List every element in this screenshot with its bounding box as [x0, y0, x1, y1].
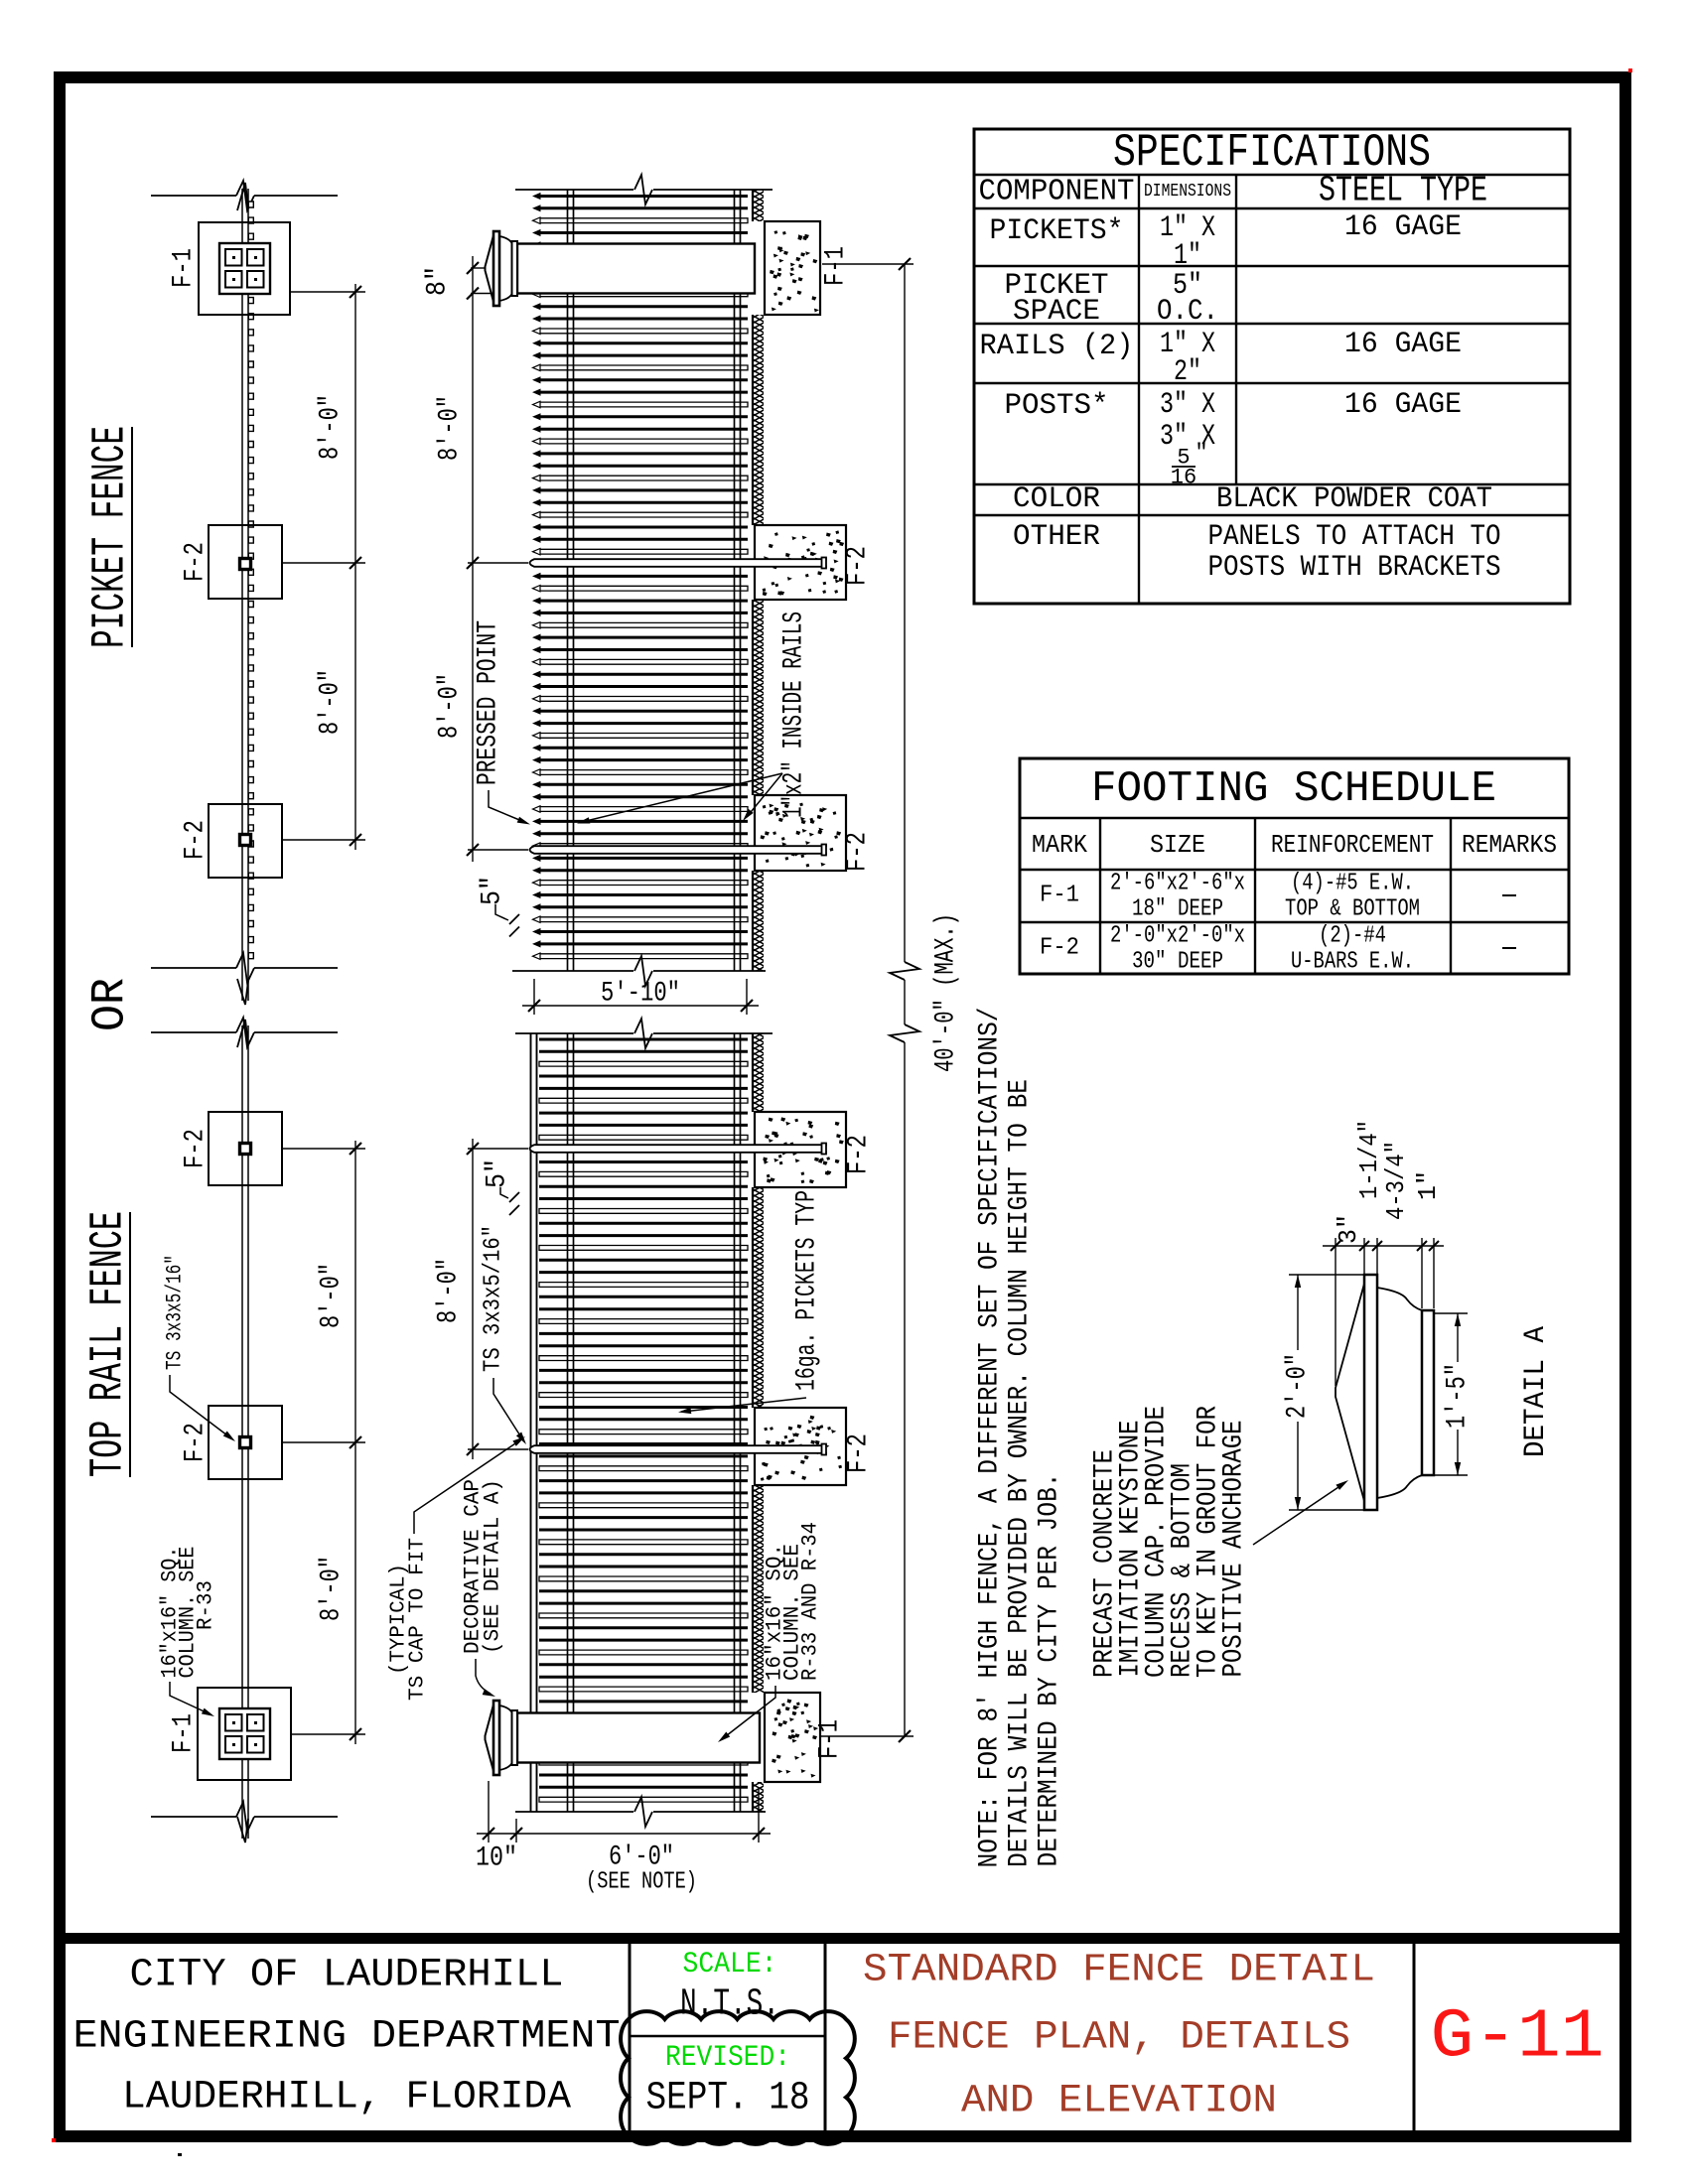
elev2 TS label leader: [493, 1378, 523, 1440]
svg-text:N.T.S.: N.T.S.: [680, 1983, 779, 2026]
footing schedule row lines: [1020, 817, 1569, 819]
svg-text:": ": [1195, 441, 1207, 466]
svg-text:TS 3x3x5/16": TS 3x3x5/16": [163, 1255, 188, 1370]
svg-text:5'-10": 5'-10": [601, 979, 680, 1010]
plan1 break arrow bottom: [237, 979, 248, 1005]
svg-text:16 GAGE: 16 GAGE: [1344, 210, 1462, 244]
plan1 TS post symbol lower: [240, 835, 251, 846]
svg-text:COMPONENT: COMPONENT: [979, 175, 1135, 209]
plan2 top rail line: [241, 1025, 243, 1839]
plan2 dimension extension lines: [282, 1148, 365, 1150]
plan1 F-2 footing box upper: [209, 525, 282, 599]
elev2 top match line: [515, 1032, 633, 1034]
svg-text:REMARKS: REMARKS: [1462, 830, 1557, 860]
svg-text:8'-0": 8'-0": [317, 1263, 348, 1328]
svg-text:8'-0": 8'-0": [435, 673, 466, 739]
detail A cap plate: [1364, 1275, 1377, 1510]
elev2 ts cap leader: [414, 1439, 521, 1534]
plan2 F-1 footing box: [198, 1688, 291, 1780]
plan2 break arrow top: [237, 1020, 248, 1047]
elev1 F-2 footing lower: [755, 795, 846, 871]
svg-text:F-2: F-2: [181, 820, 211, 860]
plan2 column note leader: [170, 1682, 211, 1714]
elev1 dim 8in extension lines: [471, 267, 485, 269]
svg-text:STEEL TYPE: STEEL TYPE: [1319, 171, 1487, 211]
plan1 picket marks: [248, 202, 253, 959]
svg-text:F-1: F-1: [815, 1719, 846, 1759]
elev1 inside rail lower: [734, 190, 736, 971]
overall dim extension line top: [822, 263, 914, 265]
elev2 pickets: [539, 1039, 748, 1787]
svg-text:5": 5": [483, 1159, 513, 1188]
title block divider city|scale: [629, 1944, 632, 2131]
svg-text:40'-0" (MAX.): 40'-0" (MAX.): [931, 913, 962, 1072]
svg-text:F-2: F-2: [843, 832, 874, 872]
svg-text:STANDARD FENCE DETAIL: STANDARD FENCE DETAIL: [863, 1949, 1375, 1993]
elev1 ground hatch: [754, 190, 764, 221]
svg-text:DIMENSIONS: DIMENSIONS: [1144, 182, 1231, 202]
svg-text:TOP & BOTTOM: TOP & BOTTOM: [1285, 896, 1420, 923]
svg-text:ENGINEERING DEPARTMENT: ENGINEERING DEPARTMENT: [73, 2015, 621, 2060]
plan2 break arrow bottom: [237, 1817, 248, 1843]
detail A dim 1-5: [1457, 1313, 1459, 1362]
svg-text:F-2: F-2: [181, 542, 211, 582]
svg-text:SEPT. 18: SEPT. 18: [646, 2077, 810, 2121]
elev1 inside rail upper: [567, 190, 569, 971]
svg-text:TOP RAIL FENCE: TOP RAIL FENCE: [83, 1211, 136, 1477]
svg-text:1-1/4": 1-1/4": [1354, 1120, 1384, 1199]
title block divider scale|title: [824, 1944, 827, 2131]
plan1 16x16 column symbol: [219, 243, 270, 294]
red plot mark bottom-left: [52, 2138, 56, 2142]
elev1 grade line: [752, 190, 754, 221]
elev2 picket space leader and ticks: [500, 1187, 508, 1198]
svg-text:3" X: 3" X: [1160, 388, 1215, 422]
specifications table row lines: [974, 174, 1570, 176]
svg-text:SIZE: SIZE: [1150, 830, 1205, 860]
svg-text:PICKETS*: PICKETS*: [990, 214, 1124, 248]
top rail fence plan title underline: [129, 1212, 131, 1477]
elev2 bottom dim line: [477, 1833, 771, 1835]
svg-text:REVISED:: REVISED:: [665, 2041, 790, 2075]
svg-text:16 GAGE: 16 GAGE: [1344, 328, 1462, 361]
svg-text:MARK: MARK: [1032, 830, 1087, 860]
elev2 ground hatch: [754, 1033, 764, 1112]
plan2 TS post symbol lower: [240, 1437, 251, 1448]
overall dim extension line bottom: [821, 1735, 914, 1737]
elev2 TS post upper: [530, 1145, 828, 1153]
svg-text:DETERMINED BY CITY PER JOB.: DETERMINED BY CITY PER JOB.: [1035, 1473, 1065, 1867]
svg-text:18" DEEP: 18" DEEP: [1132, 896, 1223, 923]
elev1 TS post upper: [530, 559, 828, 567]
svg-text:POSTS WITH BRACKETS: POSTS WITH BRACKETS: [1208, 551, 1501, 585]
svg-text:16: 16: [1171, 466, 1196, 490]
svg-text:(4)-#5 E.W.: (4)-#5 E.W.: [1291, 871, 1414, 897]
svg-text:OTHER: OTHER: [1013, 520, 1100, 554]
plan2 F-2 footing box upper: [209, 1112, 282, 1185]
svg-text:8'-0": 8'-0": [317, 1556, 348, 1621]
svg-text:R-33 AND R-34: R-33 AND R-34: [798, 1522, 823, 1681]
detail A note leader: [1253, 1483, 1344, 1545]
svg-text:F-2: F-2: [843, 546, 874, 586]
detail A base plate: [1422, 1310, 1434, 1475]
svg-text:(SEE NOTE): (SEE NOTE): [586, 1869, 697, 1896]
svg-text:1": 1": [1174, 239, 1201, 273]
elev2 bottom match line: [515, 1811, 633, 1813]
svg-text:16ga. PICKETS TYP: 16ga. PICKETS TYP: [792, 1190, 823, 1391]
svg-text:U-BARS E.W.: U-BARS E.W.: [1291, 949, 1414, 976]
elev1 bottom match line: [512, 970, 633, 972]
plan2 F-2 footing box lower: [209, 1406, 282, 1479]
svg-text:F-2: F-2: [1040, 935, 1079, 962]
svg-text:10": 10": [476, 1843, 517, 1874]
elev2 dim ext lines at posts: [468, 1148, 528, 1150]
elev1 dim line vertical: [472, 256, 474, 862]
svg-text:16 GAGE: 16 GAGE: [1344, 388, 1462, 422]
plan2 bottom match line: [151, 1816, 236, 1818]
elev1 16x16 column with cap: [517, 244, 755, 294]
elev2 F-1 footing: [765, 1693, 820, 1782]
svg-text:F-2: F-2: [844, 1433, 875, 1473]
plan2 TS label leader: [170, 1375, 231, 1438]
elev2 inside rail lower: [734, 1033, 736, 1812]
svg-text:(2)-#4: (2)-#4: [1319, 923, 1386, 950]
plan1 top match line: [151, 195, 236, 197]
svg-text:DETAIL A: DETAIL A: [1519, 1326, 1553, 1457]
svg-text:1"x2" INSIDE RAILS: 1"x2" INSIDE RAILS: [779, 612, 810, 818]
elev1 picket space leader and ticks: [495, 904, 508, 920]
svg-text:F-1: F-1: [821, 246, 852, 286]
svg-text:FENCE PLAN, DETAILS: FENCE PLAN, DETAILS: [888, 2016, 1350, 2061]
detail A dim 2-0: [1297, 1275, 1299, 1350]
plan1 TS post symbol upper: [240, 559, 251, 570]
svg-text:8": 8": [423, 266, 454, 296]
svg-text:RAILS (2): RAILS (2): [980, 330, 1134, 363]
detail A dim 2-0 extension lines: [1289, 1274, 1364, 1276]
title block divider title|number: [1413, 1944, 1416, 2131]
specifications table column lines: [1138, 175, 1140, 604]
svg-text:CITY OF LAUDERHILL: CITY OF LAUDERHILL: [130, 1954, 564, 1998]
svg-text:PRESSED POINT: PRESSED POINT: [474, 620, 504, 785]
svg-text:POSTS*: POSTS*: [1005, 389, 1109, 423]
elev1 pickets: [539, 197, 748, 944]
elev1 inside rails leaders: [582, 773, 782, 822]
plan2 dimension line: [354, 1141, 356, 1744]
elev2 bottom dim ext lines: [488, 1781, 490, 1843]
elev1 bottom dim 5-10 ext lines: [533, 979, 535, 1015]
svg-text:F-1: F-1: [169, 248, 200, 288]
svg-text:OR: OR: [85, 978, 138, 1031]
svg-text:COLOR: COLOR: [1013, 482, 1100, 516]
picket fence plan title underline: [131, 427, 133, 647]
svg-text:8'-0": 8'-0": [316, 669, 347, 735]
svg-text:AND ELEVATION: AND ELEVATION: [961, 2080, 1277, 2124]
svg-text:FOOTING SCHEDULE: FOOTING SCHEDULE: [1091, 764, 1496, 814]
plan2 top match line: [151, 1031, 236, 1033]
red plot mark top-right: [1628, 68, 1632, 72]
svg-text:8'-0": 8'-0": [316, 394, 347, 460]
svg-text:5": 5": [478, 876, 508, 905]
svg-text:2'-0": 2'-0": [1283, 1353, 1314, 1419]
svg-text:POSITIVE ANCHORAGE: POSITIVE ANCHORAGE: [1219, 1421, 1250, 1678]
detail A dim 1-5 extension lines: [1434, 1312, 1468, 1314]
plan1 break arrow top: [237, 183, 248, 210]
elev2 F-2 footing lower: [755, 1408, 846, 1485]
svg-text:2'-6"x2'-6"x: 2'-6"x2'-6"x: [1110, 871, 1245, 897]
overall dim line 40ft: [904, 264, 906, 962]
svg-text:R-33: R-33: [194, 1580, 218, 1630]
svg-text:4-3/4": 4-3/4": [1381, 1141, 1411, 1220]
elev2 dim line vertical: [472, 1139, 474, 1459]
svg-text:F-1: F-1: [1040, 883, 1079, 909]
svg-text:2": 2": [1174, 355, 1201, 389]
plan1 dimension line: [354, 284, 356, 850]
detail A top dim line: [1323, 1245, 1444, 1247]
title block top bar: [66, 1933, 1619, 1944]
elev2 16ga pickets leader: [683, 1398, 806, 1412]
svg-text:F-2: F-2: [181, 1129, 211, 1168]
svg-text:2'-0"x2'-0"x: 2'-0"x2'-0"x: [1110, 923, 1245, 950]
svg-text:TS CAP TO FIT: TS CAP TO FIT: [407, 1538, 430, 1701]
svg-text:(SEE DETAIL A): (SEE DETAIL A): [481, 1479, 505, 1654]
title block scale cell divider: [630, 2035, 825, 2037]
plan1 fence panel line: [241, 189, 243, 1001]
svg-text:REINFORCEMENT: REINFORCEMENT: [1271, 830, 1434, 860]
svg-text:BLACK POWDER COAT: BLACK POWDER COAT: [1216, 482, 1492, 516]
elev2 grade line: [752, 1033, 754, 1112]
svg-text:DETAILS WILL BE PROVIDED BY OW: DETAILS WILL BE PROVIDED BY OWNER. COLUM…: [1005, 1079, 1036, 1867]
stray dot below title block: [178, 2153, 182, 2156]
plan2 16x16 column symbol: [219, 1708, 270, 1759]
plan1 F-2 footing box lower: [209, 804, 282, 878]
detail A top dim extension lines: [1335, 1238, 1336, 1386]
elev1 TS post lower: [530, 846, 828, 854]
svg-text:F-1: F-1: [169, 1713, 200, 1753]
svg-text:SPACE: SPACE: [1013, 295, 1100, 329]
elev2 top rail: [530, 1033, 532, 1812]
svg-text:SCALE:: SCALE:: [683, 1948, 777, 1981]
elev1 top match line: [515, 189, 633, 191]
svg-text:O.C.: O.C.: [1157, 295, 1218, 329]
elev2 TS post lower: [530, 1445, 828, 1453]
plan1 dimension extension lines: [290, 291, 365, 293]
svg-text:PANELS TO ATTACH TO: PANELS TO ATTACH TO: [1208, 520, 1501, 554]
elev1 F-2 footing upper: [755, 525, 846, 600]
svg-text:3": 3": [1334, 1214, 1363, 1244]
svg-text:8'-0": 8'-0": [434, 1258, 465, 1323]
elev1 pressed point leader: [489, 790, 524, 822]
svg-text:8'-0": 8'-0": [435, 395, 466, 461]
elev1 dim line 5-10: [522, 1005, 759, 1007]
detail A cap taper: [1336, 1284, 1364, 1501]
footing schedule table outline: [1020, 758, 1569, 974]
svg-text:1": 1": [1413, 1170, 1443, 1200]
detail A neck curves: [1377, 1288, 1422, 1310]
svg-text:NOTE: FOR 8' HIGH FENCE, A DIF: NOTE: FOR 8' HIGH FENCE, A DIFFERENT SET…: [975, 1008, 1006, 1868]
specifications table outline: [974, 129, 1570, 604]
svg-text:F-2: F-2: [181, 1423, 211, 1462]
elev2 F-2 footing upper: [755, 1112, 846, 1187]
elev1 dim ext lines at posts: [468, 562, 528, 564]
svg-text:G-11: G-11: [1431, 1999, 1605, 2078]
elev2 inside rail upper: [567, 1033, 569, 1812]
svg-text:30" DEEP: 30" DEEP: [1132, 949, 1223, 976]
elev2 column note leader: [722, 1686, 775, 1739]
elev2 16x16 column with cap: [517, 1713, 760, 1763]
footing schedule column lines: [1099, 818, 1101, 974]
svg-text:LAUDERHILL, FLORIDA: LAUDERHILL, FLORIDA: [122, 2076, 571, 2120]
revision cloud: [621, 2011, 855, 2144]
plan2 TS post symbol upper: [240, 1144, 251, 1155]
svg-text:TS 3x3x5/16": TS 3x3x5/16": [481, 1225, 507, 1372]
elev2 decorative cap leader: [476, 1659, 491, 1694]
svg-text:PICKET FENCE: PICKET FENCE: [85, 426, 138, 648]
elev1 F-1 footing: [765, 221, 820, 315]
plan1 F-1 footing box: [199, 222, 290, 315]
plan1 bottom match line: [151, 967, 236, 969]
svg-text:F-2: F-2: [844, 1135, 875, 1174]
svg-text:1'-5": 1'-5": [1443, 1363, 1474, 1429]
